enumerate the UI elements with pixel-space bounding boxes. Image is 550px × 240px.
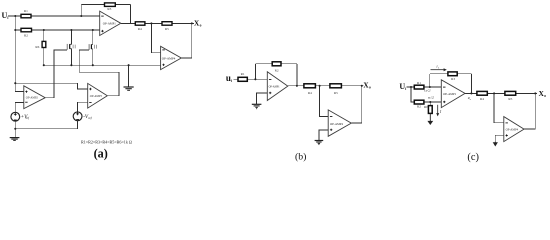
svg-text:u/2: u/2 — [428, 96, 435, 100]
svg-text:R5: R5 — [508, 97, 512, 101]
wire: M2 gate lead from OP-AMP3 output (a) — [79, 50, 119, 96]
ground symbol at OP-AMP4 + input (b) — [315, 141, 324, 145]
wire: OP-AMP4 output riser to Xo line (b) — [351, 86, 362, 123]
node: M2 drain on + rail (a) — [92, 29, 94, 31]
wire: OP-AMP4 + input to ground (b) — [319, 130, 328, 140]
node: M1 source on rail (a) — [70, 64, 72, 66]
wire: M2 source drop to rail (a) — [92, 49, 94, 65]
resistor R4 (b) — [304, 84, 316, 95]
svg-text:R2: R2 — [275, 69, 279, 73]
svg-text:OP-AMP3: OP-AMP3 — [90, 94, 103, 98]
resistor R5 (a) — [162, 22, 172, 31]
wire: +Vref source to ground rail (a) — [14, 122, 16, 129]
svg-text:OP-AMP1: OP-AMP1 — [103, 22, 116, 26]
wire: Ui input line to OP-AMP1 inverting input (a) — [8, 15, 100, 17]
node: Ui / left bus junction (a) — [14, 15, 16, 17]
svg-text:o: o — [200, 24, 202, 28]
svg-text:o: o — [369, 86, 371, 90]
wire: OP-AMP2 - input to +Vref source (a) — [15, 102, 23, 111]
label Ui input (c) — [399, 82, 406, 91]
op-amp OP-AMP3 (a) — [88, 83, 108, 108]
op-amp OP-AMP4 (b) — [328, 110, 351, 136]
wire: Ui input line to OP-AMP1 - input (c) — [407, 86, 442, 88]
wire: M1 source drop to rail (a) — [70, 49, 72, 65]
resistor R4 (a) — [135, 22, 145, 31]
wire: feedback drop to output (b) — [296, 64, 298, 86]
ground symbol at OP-AMP1 + input (b) — [252, 104, 262, 108]
wire: node between R4 and R5 down to OP-AMP4 - input (a) — [151, 23, 160, 52]
wire: M1 gate lead from OP-AMP2 output (a) — [45, 50, 67, 98]
wire: feedback drop to OP-AMP1 output (a) — [130, 5, 132, 24]
wire: left vertical bus from Ui line down to comparator node (a) — [14, 16, 16, 83]
node: output feedback junction (b) — [296, 85, 298, 87]
wire: branch down to OP-AMP2 + input (a) — [15, 83, 23, 91]
label uo output of OP-AMP1 (c) — [468, 96, 472, 101]
node: bottom rail junction (a) — [14, 128, 16, 130]
wire: ground drop from rail (a) — [128, 65, 130, 87]
svg-text:i: i — [405, 87, 406, 91]
op-amp OP-AMP1 (b) — [267, 72, 288, 101]
resistor R4 (c) — [477, 91, 487, 100]
resistor R1 (c) — [414, 81, 424, 89]
resistor R1 (a) — [21, 9, 31, 18]
resistor R3 feedback (a) — [105, 3, 116, 11]
node: R4-R5 junction (b) — [319, 85, 321, 87]
svg-text:R5: R5 — [165, 27, 169, 31]
svg-text:R3: R3 — [451, 77, 455, 81]
ground arrow at OP-AMP4 + input (c) — [493, 142, 498, 147]
node: R6 bottom on source rail (a) — [43, 64, 45, 66]
svg-text:R1: R1 — [241, 72, 245, 76]
svg-text:OP-AMP1: OP-AMP1 — [443, 92, 456, 96]
wire: OP-AMP4 output riser to Xo line (c) — [524, 93, 535, 129]
wire: feedback top line through R2 (b) — [255, 63, 297, 65]
svg-text:R4: R4 — [480, 97, 484, 101]
ground arrow below R6 (c) — [427, 113, 433, 125]
wire: feedback riser (c) — [429, 74, 431, 87]
wire: OP-AMP4 + input to ground arrow (c) — [495, 135, 504, 141]
node: feedback tap (b) — [254, 78, 256, 80]
resistor R2 (c) — [414, 100, 424, 108]
op-amp OP-AMP1 (a) — [100, 11, 121, 35]
svg-text:R6: R6 — [424, 105, 428, 109]
wire: R6 top lead (a) — [43, 30, 45, 41]
svg-text:R4: R4 — [308, 91, 312, 95]
label Xo output (b) — [363, 82, 371, 90]
wire: lower rail from left vertical to OP-AMP1 + input (a) — [15, 29, 99, 31]
wire: -Vref source to OP-AMP3 - input (a) — [78, 102, 88, 111]
wire: feedback riser from Ui line up to R3 line (a) — [80, 5, 82, 16]
svg-text:R1=R2=R3=R4=R5=R6=1k Ω: R1=R2=R3=R4=R5=R6=1k Ω — [81, 140, 132, 144]
node: M2 source on rail (a) — [92, 64, 94, 66]
resistor R3 feedback (c) — [448, 72, 457, 81]
node: Xo junction (b) — [361, 85, 363, 87]
transistor M2 (a) — [89, 44, 97, 50]
wire: OP-AMP4 output riser to Xo line (a) — [181, 23, 192, 58]
wire: R3 feedback top line (a) — [81, 4, 130, 6]
resistor R2 (a) — [21, 28, 32, 37]
wire: M2 drain riser to + rail (a) — [92, 30, 94, 45]
voltage source -Vref (a) — [73, 112, 93, 121]
current arrow I3 over feedback line (c) — [431, 65, 447, 72]
resistor R6 vertical (c) — [424, 105, 432, 114]
svg-text:(a): (a) — [94, 147, 108, 161]
resistor R5 (c) — [505, 91, 516, 100]
svg-text:R2: R2 — [417, 105, 421, 109]
node: comparator bus junction (a) — [14, 82, 16, 84]
resistor R2 feedback (b) — [272, 62, 281, 73]
wire: R4-R5 node down to OP-AMP4 - input (c) — [494, 93, 504, 122]
svg-text:R1: R1 — [417, 81, 421, 85]
op-amp OP-AMP2 (a) — [24, 86, 45, 109]
svg-text:OP-AMP2: OP-AMP2 — [26, 96, 39, 100]
svg-text:R5: R5 — [334, 91, 338, 95]
wire: feedback drop to output (c) — [470, 74, 472, 94]
svg-text:u/2: u/2 — [424, 88, 431, 92]
label Xo output (a) — [194, 20, 202, 28]
voltage source +Vref (a) — [11, 112, 30, 121]
svg-text:o: o — [544, 94, 546, 98]
wire: comparator signal line to OP-AMP3 + input (a) — [15, 83, 87, 89]
current arrow I at R6 (c) — [436, 105, 442, 117]
wire: bottom ground rail (a) — [15, 121, 77, 129]
svg-text:OP-AMP4: OP-AMP4 — [330, 122, 343, 126]
svg-text:(c): (c) — [467, 152, 479, 163]
wire: feedback top line through R3 (c) — [430, 73, 472, 75]
resistor R5 (b) — [330, 84, 342, 95]
transistor M1 (a) — [67, 44, 75, 50]
ground symbol bottom left (a) — [10, 138, 20, 141]
wire: R4-R5 node down to OP-AMP4 - input (b) — [320, 86, 329, 117]
node: ground tap on rail (a) — [128, 64, 130, 66]
node: Xo junction (a) — [191, 22, 193, 24]
node: feedback tap on Ui line (a) — [80, 15, 82, 17]
label Xo output (c) — [539, 90, 547, 98]
wire: output line through R4 R5 to Xo (b) — [288, 85, 364, 87]
wire: output line through R4 R5 to Xo (c) — [465, 92, 537, 94]
wire: u input line to OP-AMP1 inverting input (b) — [234, 78, 268, 80]
svg-text:R1: R1 — [24, 9, 28, 13]
svg-text:OP-AMP1: OP-AMP1 — [269, 85, 280, 89]
wire: MOSFET source rail to OP-AMP4 + input (a) — [44, 64, 161, 66]
svg-text:R6: R6 — [35, 45, 39, 49]
svg-text:R3: R3 — [107, 7, 111, 11]
wire: branch down to R2 line (c) — [411, 87, 441, 102]
op-amp OP-AMP4 (c) — [504, 117, 524, 142]
svg-text:i: i — [7, 16, 8, 20]
wire: OP-AMP1 output line through R4 R5 to Xo (a) — [121, 22, 194, 24]
node: Xo junction (c) — [534, 92, 536, 94]
op-amp OP-AMP4 (a) — [161, 46, 182, 69]
svg-text:i: i — [231, 79, 232, 83]
svg-text:(b): (b) — [295, 151, 306, 162]
node: R4-R5 junction (c) — [493, 92, 495, 94]
resistor R6 (a) — [35, 41, 45, 49]
wire: ground drop below bottom rail (a) — [14, 129, 16, 138]
wire: R6 top lead (c) — [429, 102, 431, 106]
svg-text:R2: R2 — [24, 34, 28, 38]
wire: R6 bottom lead to source rail (a) — [43, 48, 45, 66]
node: feedback tap on - line (c) — [429, 86, 431, 88]
node: left bus / R2 line junction (a) — [14, 29, 16, 31]
node: R6 tap on + line (c) — [429, 101, 431, 103]
node: R6 top on + rail (a) — [43, 29, 45, 31]
ground symbol below source rail (a) — [124, 87, 134, 90]
svg-text:OP-AMP4: OP-AMP4 — [506, 127, 519, 131]
node: M1 drain on + rail (a) — [70, 29, 72, 31]
op-amp OP-AMP1 (c) — [441, 80, 465, 108]
wire: feedback riser (b) — [254, 64, 256, 80]
wire: M1 drain riser to + rail (a) — [70, 30, 72, 44]
resistor R1 (b) — [238, 72, 247, 81]
svg-text:R4: R4 — [138, 27, 142, 31]
svg-text:OP-AMP4: OP-AMP4 — [162, 56, 176, 60]
node: R4-R5 junction (a) — [150, 22, 152, 24]
wire: OP-AMP1 + input to ground (b) — [257, 93, 268, 104]
label Ui input (a) — [2, 11, 9, 20]
node: output feedback junction (c) — [470, 92, 472, 94]
node: Ui branch junction (c) — [410, 86, 412, 88]
label u input (b) — [226, 73, 232, 83]
